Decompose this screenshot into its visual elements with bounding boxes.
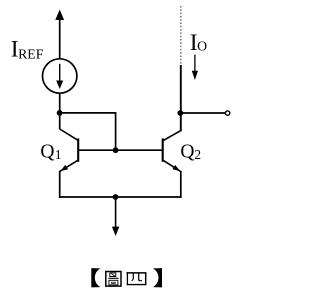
caption bracket left 【 [91, 268, 100, 287]
wire: Q1 emitter down to bottom rail [59, 171, 61, 198]
arrow: IO current direction [192, 55, 198, 80]
wire: from node C to output terminal [180, 112, 225, 114]
node B (junction dot on base rail) [113, 147, 119, 153]
svg-text:1: 1 [55, 147, 62, 162]
wire: solid output column down to Q2 collector tap [180, 65, 182, 131]
caption glyph 四 [127, 272, 147, 285]
caption 【圖四】 drawn as vector glyphs [91, 268, 162, 287]
caption glyph 圖 [106, 272, 121, 287]
wire: top lead of IREF branch with upward arrow [55, 10, 64, 59]
wire: middle column down to base rail [115, 112, 117, 150]
wire: Q2 emitter down to bottom rail [180, 171, 182, 198]
node D (junction dot on bottom rail) [113, 194, 119, 200]
transistor Q1 (NPN, mirrored, base on right) [60, 129, 78, 171]
svg-text:Q: Q [40, 142, 54, 163]
caption bracket right 】 [153, 268, 162, 287]
svg-text:O: O [197, 39, 207, 54]
wire: base rail connecting Q1 and Q2 bases [78, 149, 162, 151]
label IO [190, 30, 207, 56]
label Q2 [180, 141, 201, 162]
wire: bottom emitter rail [59, 196, 182, 198]
svg-text:2: 2 [194, 147, 201, 162]
svg-text:REF: REF [18, 47, 44, 62]
current source IREF (circle with downward internal arrow) [43, 59, 77, 93]
label Q1 [40, 142, 61, 163]
wire: dashed upper segment of output column [180, 6, 182, 65]
arrow: tail current direction downward [112, 197, 119, 236]
transistor Q2 (NPN, base on left) [163, 131, 181, 172]
wire: from current source down to node A and collector tap [59, 94, 61, 129]
node A (junction dot on left rail) [57, 110, 63, 116]
wire: horizontal from node A to middle column [60, 112, 116, 114]
label IREF [11, 37, 44, 63]
terminal: open circle output [225, 111, 229, 115]
svg-text:Q: Q [180, 141, 194, 162]
node C (junction dot at output tap) [177, 110, 183, 116]
